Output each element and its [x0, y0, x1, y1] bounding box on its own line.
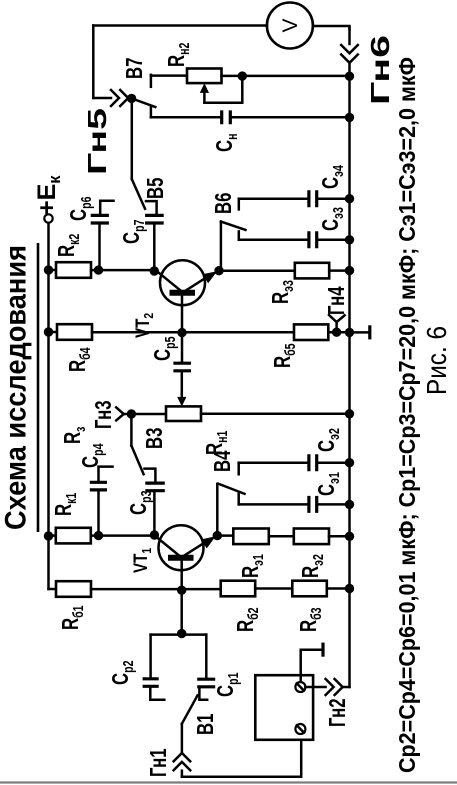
wire VT2 base (through Cp5)	[181, 294, 184, 363]
potentiometer Rn2	[151, 43, 350, 103]
svg-text:В1: В1	[194, 714, 219, 735]
svg-text:В7: В7	[123, 58, 148, 79]
capacitor Cp3	[127, 469, 165, 535]
contact to Ce2	[237, 463, 240, 475]
node collector2 dots	[94, 265, 103, 274]
+Ek terminal	[44, 214, 52, 222]
+Ek supply rail	[47, 224, 50, 590]
node: +Ek rail dots	[44, 265, 53, 540]
capacitor Cp2	[109, 635, 165, 700]
wire emitter2 to V6 pivot	[220, 222, 223, 271]
resistor Rb2	[221, 581, 256, 597]
svg-text:Гн2: Гн2	[326, 698, 351, 727]
switch V7	[132, 98, 156, 107]
svg-text:Рис. 6: Рис. 6	[421, 326, 452, 395]
resistor Rb1	[49, 588, 57, 591]
svg-text:В3: В3	[143, 428, 168, 449]
capacitor Ce1	[239, 472, 350, 513]
wire Rb2-Rb3	[255, 587, 292, 590]
connector Gn2 (chevrons)	[305, 679, 350, 727]
box Gn2 unit	[255, 675, 313, 740]
wire Gn1 to V1 pivot	[181, 724, 184, 754]
switch V5	[132, 179, 145, 209]
resistor Rb3	[292, 581, 327, 597]
svg-text:Схема исследования: Схема исследования	[0, 245, 33, 530]
capacitor Cp7	[120, 201, 164, 271]
ground tick near box	[321, 643, 324, 657]
wire Rb4 to base2 node	[92, 331, 294, 334]
wire VT1 base	[180, 559, 183, 634]
switch V3	[131, 446, 143, 475]
wire Rb3 to rail	[327, 587, 350, 590]
capacitor Cp5	[151, 337, 191, 394]
ground tick below rail	[350, 331, 370, 334]
resistor Re2	[294, 529, 329, 545]
svg-text:Гн1: Гн1	[147, 748, 172, 777]
switch V1	[182, 695, 198, 723]
wire V5 pivot to Gn5 node	[131, 99, 134, 180]
wire Rb5 to rail	[328, 331, 349, 334]
capacitor Cp6	[67, 197, 114, 271]
node: rail junction dots	[345, 72, 354, 594]
potentiometer Rn1	[131, 394, 349, 455]
contact to Ce3	[238, 231, 241, 239]
switch V6	[221, 222, 246, 230]
node collector1 dots	[94, 531, 103, 540]
wire input node line	[151, 633, 207, 636]
connector Gn1	[147, 748, 191, 777]
resistor Rk1	[49, 534, 56, 537]
pin2 terminal	[295, 724, 305, 734]
connector Gn6 (chevrons in rail)	[341, 45, 358, 63]
wire VT2 emitter column	[219, 269, 295, 272]
wire Re2 to rail	[329, 535, 350, 538]
svg-text:Гн6: Гн6	[365, 35, 395, 105]
resistor Rb4	[49, 331, 58, 334]
resistor Rk2	[49, 269, 57, 272]
wire V3 pivot to Gn3 node	[130, 414, 133, 446]
resistor Rb5	[294, 324, 328, 340]
contact to Rn2	[150, 75, 153, 87]
svg-text:Гн5: Гн5	[82, 108, 112, 175]
capacitor Cn	[151, 107, 350, 152]
svg-text:Гн4: Гн4	[325, 286, 350, 315]
contact to Ce1	[237, 494, 240, 505]
wire left border to box pin2	[182, 734, 301, 777]
contact to Ce4	[238, 199, 241, 210]
switch V4	[219, 484, 245, 494]
pin1 terminal	[295, 682, 305, 692]
wire emitter1 to V4 pivot	[216, 484, 219, 537]
connector Gn5	[82, 90, 136, 175]
resistor Re3	[295, 263, 329, 279]
svg-text:В5: В5	[144, 178, 169, 199]
resistor Re1	[233, 529, 268, 545]
capacitor Ce3	[239, 207, 350, 248]
wire Re1-Re2	[269, 535, 294, 538]
capacitor Ce4	[239, 165, 350, 207]
wire VT1 emitter column	[217, 534, 233, 537]
wire pin1 to ground tick	[301, 650, 323, 682]
wire VT2 collector column	[91, 269, 155, 272]
wire Rb1 to base node	[91, 588, 221, 591]
svg-text:Гн3: Гн3	[92, 400, 117, 429]
svg-text:В6: В6	[212, 193, 237, 214]
transistor VT2	[131, 260, 215, 338]
transistor VT1	[129, 525, 213, 573]
ground rail	[348, 28, 351, 687]
voltmeter V	[93, 3, 349, 49]
wire Re3 to rail	[329, 269, 349, 272]
capacitor Cp1	[197, 635, 241, 700]
capacitor Cp4	[79, 444, 113, 536]
wire output top line	[92, 26, 95, 99]
scan edge artifact line	[0, 781, 457, 783]
connector Gn3 (fork)	[92, 400, 137, 429]
svg-text:V: V	[279, 18, 302, 32]
svg-text:Ср2=Ср4=Ср6=0,01 мкФ; Ср1=Ср3=: Ср2=Ср4=Ср6=0,01 мкФ; Ср1=Ср3=Ср7=20,0 м…	[394, 57, 420, 773]
capacitor Ce2	[239, 428, 350, 471]
connector Gn4 (fork)	[325, 286, 350, 337]
wire VT1 collector column	[91, 534, 155, 537]
